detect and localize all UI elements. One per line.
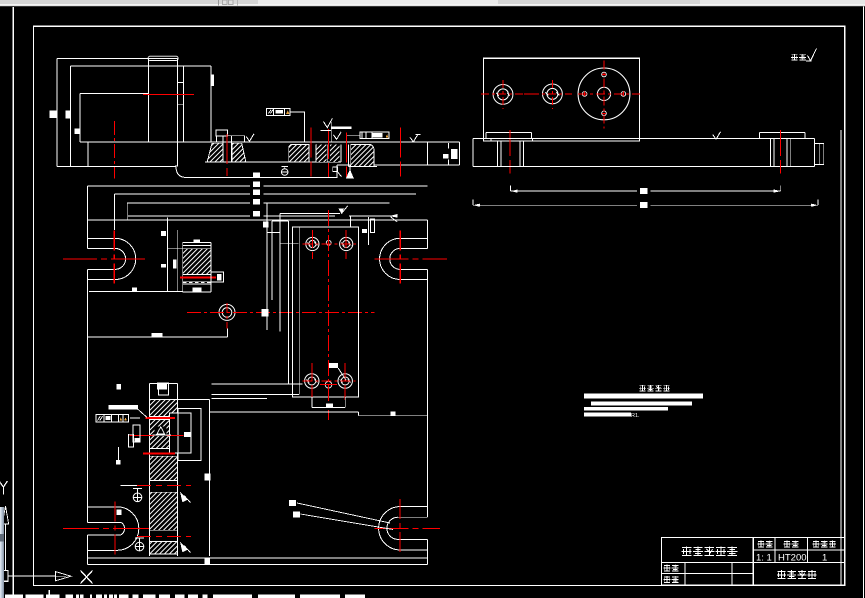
surface finish symbol 3 (410, 134, 418, 142)
svg-text:R1.: R1. (631, 413, 640, 419)
plan view - section block dashed strip (183, 280, 211, 282)
plan view - hole plate top counterbores (306, 237, 319, 250)
front view - datum triangle (346, 170, 353, 178)
UCS icon origin box (2, 571, 9, 582)
plan view - internal line near bottom (88, 557, 428, 559)
plan view - dim text blobs (253, 173, 260, 178)
front view - plate hatch section A (289, 144, 309, 162)
window right edge line (862, 7, 864, 598)
UCS icon X label (81, 571, 93, 584)
plan view - section block surround (167, 217, 169, 291)
front view - clamp stud nut (216, 130, 227, 136)
sheet frame inner right line (840, 130, 842, 585)
plan view - outer outline (88, 219, 428, 221)
front view - bracket centerline horizontal (143, 93, 194, 95)
front view - bracket small squares (50, 111, 57, 118)
plan view - section block upper (hatched square) (183, 242, 211, 244)
annotation qiyu + surface check top right (791, 54, 798, 60)
plan view - column red lines in gaps (146, 417, 176, 419)
plan view - hole plate outline (293, 227, 359, 397)
front view - plate red centerlines (226, 134, 228, 176)
plan view - center pin circle (219, 304, 235, 320)
side view - base plate (473, 137, 815, 139)
technical requirements lines (584, 394, 703, 399)
front view - bracket top pin (148, 56, 178, 60)
plan view - U-slot bottom left (88, 506, 118, 508)
front view - surface check near clamp (246, 134, 254, 142)
command line text fragments bottom (5, 595, 23, 598)
side view - boss red centerline left (509, 130, 511, 174)
plan view - dim extension verticals (113, 194, 115, 230)
plan view - small boxes left of column (133, 425, 140, 442)
front view - bracket right tab (211, 74, 214, 86)
datum flag A on column (155, 426, 167, 436)
toolbar strip top (0, 0, 865, 7)
UCS icon Y label (0, 481, 8, 495)
side view - block bottom boss notch (490, 138, 492, 141)
plan view - datum targets on column (133, 488, 142, 490)
plan view - column right outline box (209, 399, 211, 556)
side view - hole1 red crosshair (481, 93, 524, 95)
plan view - dimension lines above (88, 185, 251, 187)
plan view - section block bottom tab (193, 288, 202, 292)
title block text headers (758, 541, 765, 547)
plan view - leader square left of column mid (117, 447, 119, 460)
plan view - U-slot bottom right red crosshair (375, 527, 440, 529)
svg-text:HT200: HT200 (778, 552, 807, 563)
plan view - U-slot middle left (88, 237, 116, 239)
plan view - center pin red crosshair (187, 312, 375, 314)
side view - surface check on plate (713, 132, 721, 140)
side view - right end tab (815, 144, 824, 165)
plan view - U-slot bottom right (400, 506, 427, 508)
front view - plate hatch section B (316, 144, 327, 162)
plan view - U-slot bottom right leader (297, 503, 390, 523)
plan view - leader arrow right end (389, 214, 397, 218)
side view - block outline (484, 58, 640, 141)
tolerance frame F3 bar leader diagonal (138, 409, 147, 417)
plan view - hole plate red centerlines (328, 210, 330, 420)
plan view - dim line below center pin (88, 336, 228, 338)
title block text roles (664, 565, 671, 571)
front view - clamp stud channel (222, 136, 224, 162)
plan view - U-slot middle right red crosshair (375, 258, 447, 260)
plan view - long line below hole plate (210, 411, 359, 413)
side view - red horizontal through holes (524, 93, 531, 95)
plan view - section block right box (211, 272, 224, 282)
side view - dim line 1 (511, 190, 637, 192)
plan view - section block red line (180, 276, 216, 278)
side view - dim line 2 (473, 204, 637, 206)
title block outline (662, 538, 845, 586)
window left edge line (12, 7, 14, 598)
side view - hole2 red crosshair (531, 93, 572, 95)
plan view - hole plate leader tab (329, 363, 338, 368)
side view - bolt circle flange (578, 68, 630, 120)
plan view - U-slot bottom left red crosshair (63, 528, 161, 530)
tolerance frame F3 left of column (96, 414, 128, 422)
front view - bracket slot caps (178, 82, 184, 84)
side view - counterbore hole 2 (543, 84, 563, 104)
plan view - hole plate dim bracket below (311, 397, 313, 408)
title block horizontals (753, 549, 844, 551)
tolerance frame F3 leader (130, 417, 140, 419)
svg-text:1: 1 (822, 552, 827, 563)
plan view - surface check on dim line (338, 208, 344, 213)
plan view - column bolt box occluding hatch (170, 413, 191, 453)
front view - clamp wedge hatch right (232, 143, 246, 162)
plan view - column top cap (159, 383, 169, 395)
command line cursor mark (49, 590, 51, 595)
svg-text:1: 1: 1: 1 (756, 552, 772, 563)
side view - counterbore hole 1 (493, 85, 513, 105)
tolerance frame F2 (360, 132, 389, 139)
tolerance frame F1 parallelism (266, 109, 290, 116)
front view - section flag small box (333, 167, 338, 172)
side view - boss red centerline right (780, 130, 782, 174)
plan view - flags right of column (180, 492, 188, 502)
front view - bracket upright outline (57, 57, 178, 59)
front view - plate hatch section D (351, 144, 374, 166)
UCS icon Y axis arrow (2, 506, 8, 524)
side view - plate right bump (759, 131, 805, 133)
tolerance frame F1 leader (290, 112, 304, 142)
plan view - white square top of nested verticals (263, 222, 269, 228)
technical requirements title (639, 385, 646, 391)
surface finish symbol big over plate (323, 118, 332, 127)
tolerance frame F3 text bar above (109, 405, 139, 409)
plan view - connector y232 (267, 232, 280, 234)
plan view - column hatch segments (150, 399, 177, 416)
title block verticals (752, 538, 754, 586)
side view - bolt circle red crosshair (578, 93, 640, 95)
plan view - bottom edge squares (205, 559, 211, 564)
side view - bolt circle small holes (602, 72, 607, 77)
plan view - U-slot middle right (400, 237, 427, 239)
front view - bracket centerline vertical (114, 121, 116, 179)
surface finish symbol small 2 (333, 132, 341, 140)
side view - plate left bump (486, 131, 532, 133)
title block text company (777, 570, 786, 578)
plan view - hole plate bottom counterbores (305, 374, 319, 388)
front view - plate hatch section C (330, 144, 339, 162)
front view - datum target below plate (281, 165, 288, 167)
UCS icon X axis (8, 575, 56, 577)
front view - base plate outline (80, 141, 460, 143)
plan view - connector lines column to plate (212, 383, 303, 385)
front view - base plate bottom flange (176, 165, 337, 178)
title block text part name (682, 546, 692, 555)
plan view - right of plate top structures (362, 229, 367, 233)
plan view - section column outline (149, 383, 151, 556)
front view - clamp wedge hatch left (207, 143, 223, 162)
white extension line x331 (330, 122, 332, 142)
front view - bracket inner step (80, 93, 149, 95)
front view - line under clamp hatch (205, 161, 341, 163)
plan view - nested lines left of hole plate (271, 221, 273, 300)
plan view - U-slot bottom left square (117, 510, 122, 516)
front view - right end clamp (447, 143, 449, 149)
plan view - U-slot middle left red crosshair (63, 258, 148, 260)
plan view - white square left of column top (116, 384, 121, 390)
